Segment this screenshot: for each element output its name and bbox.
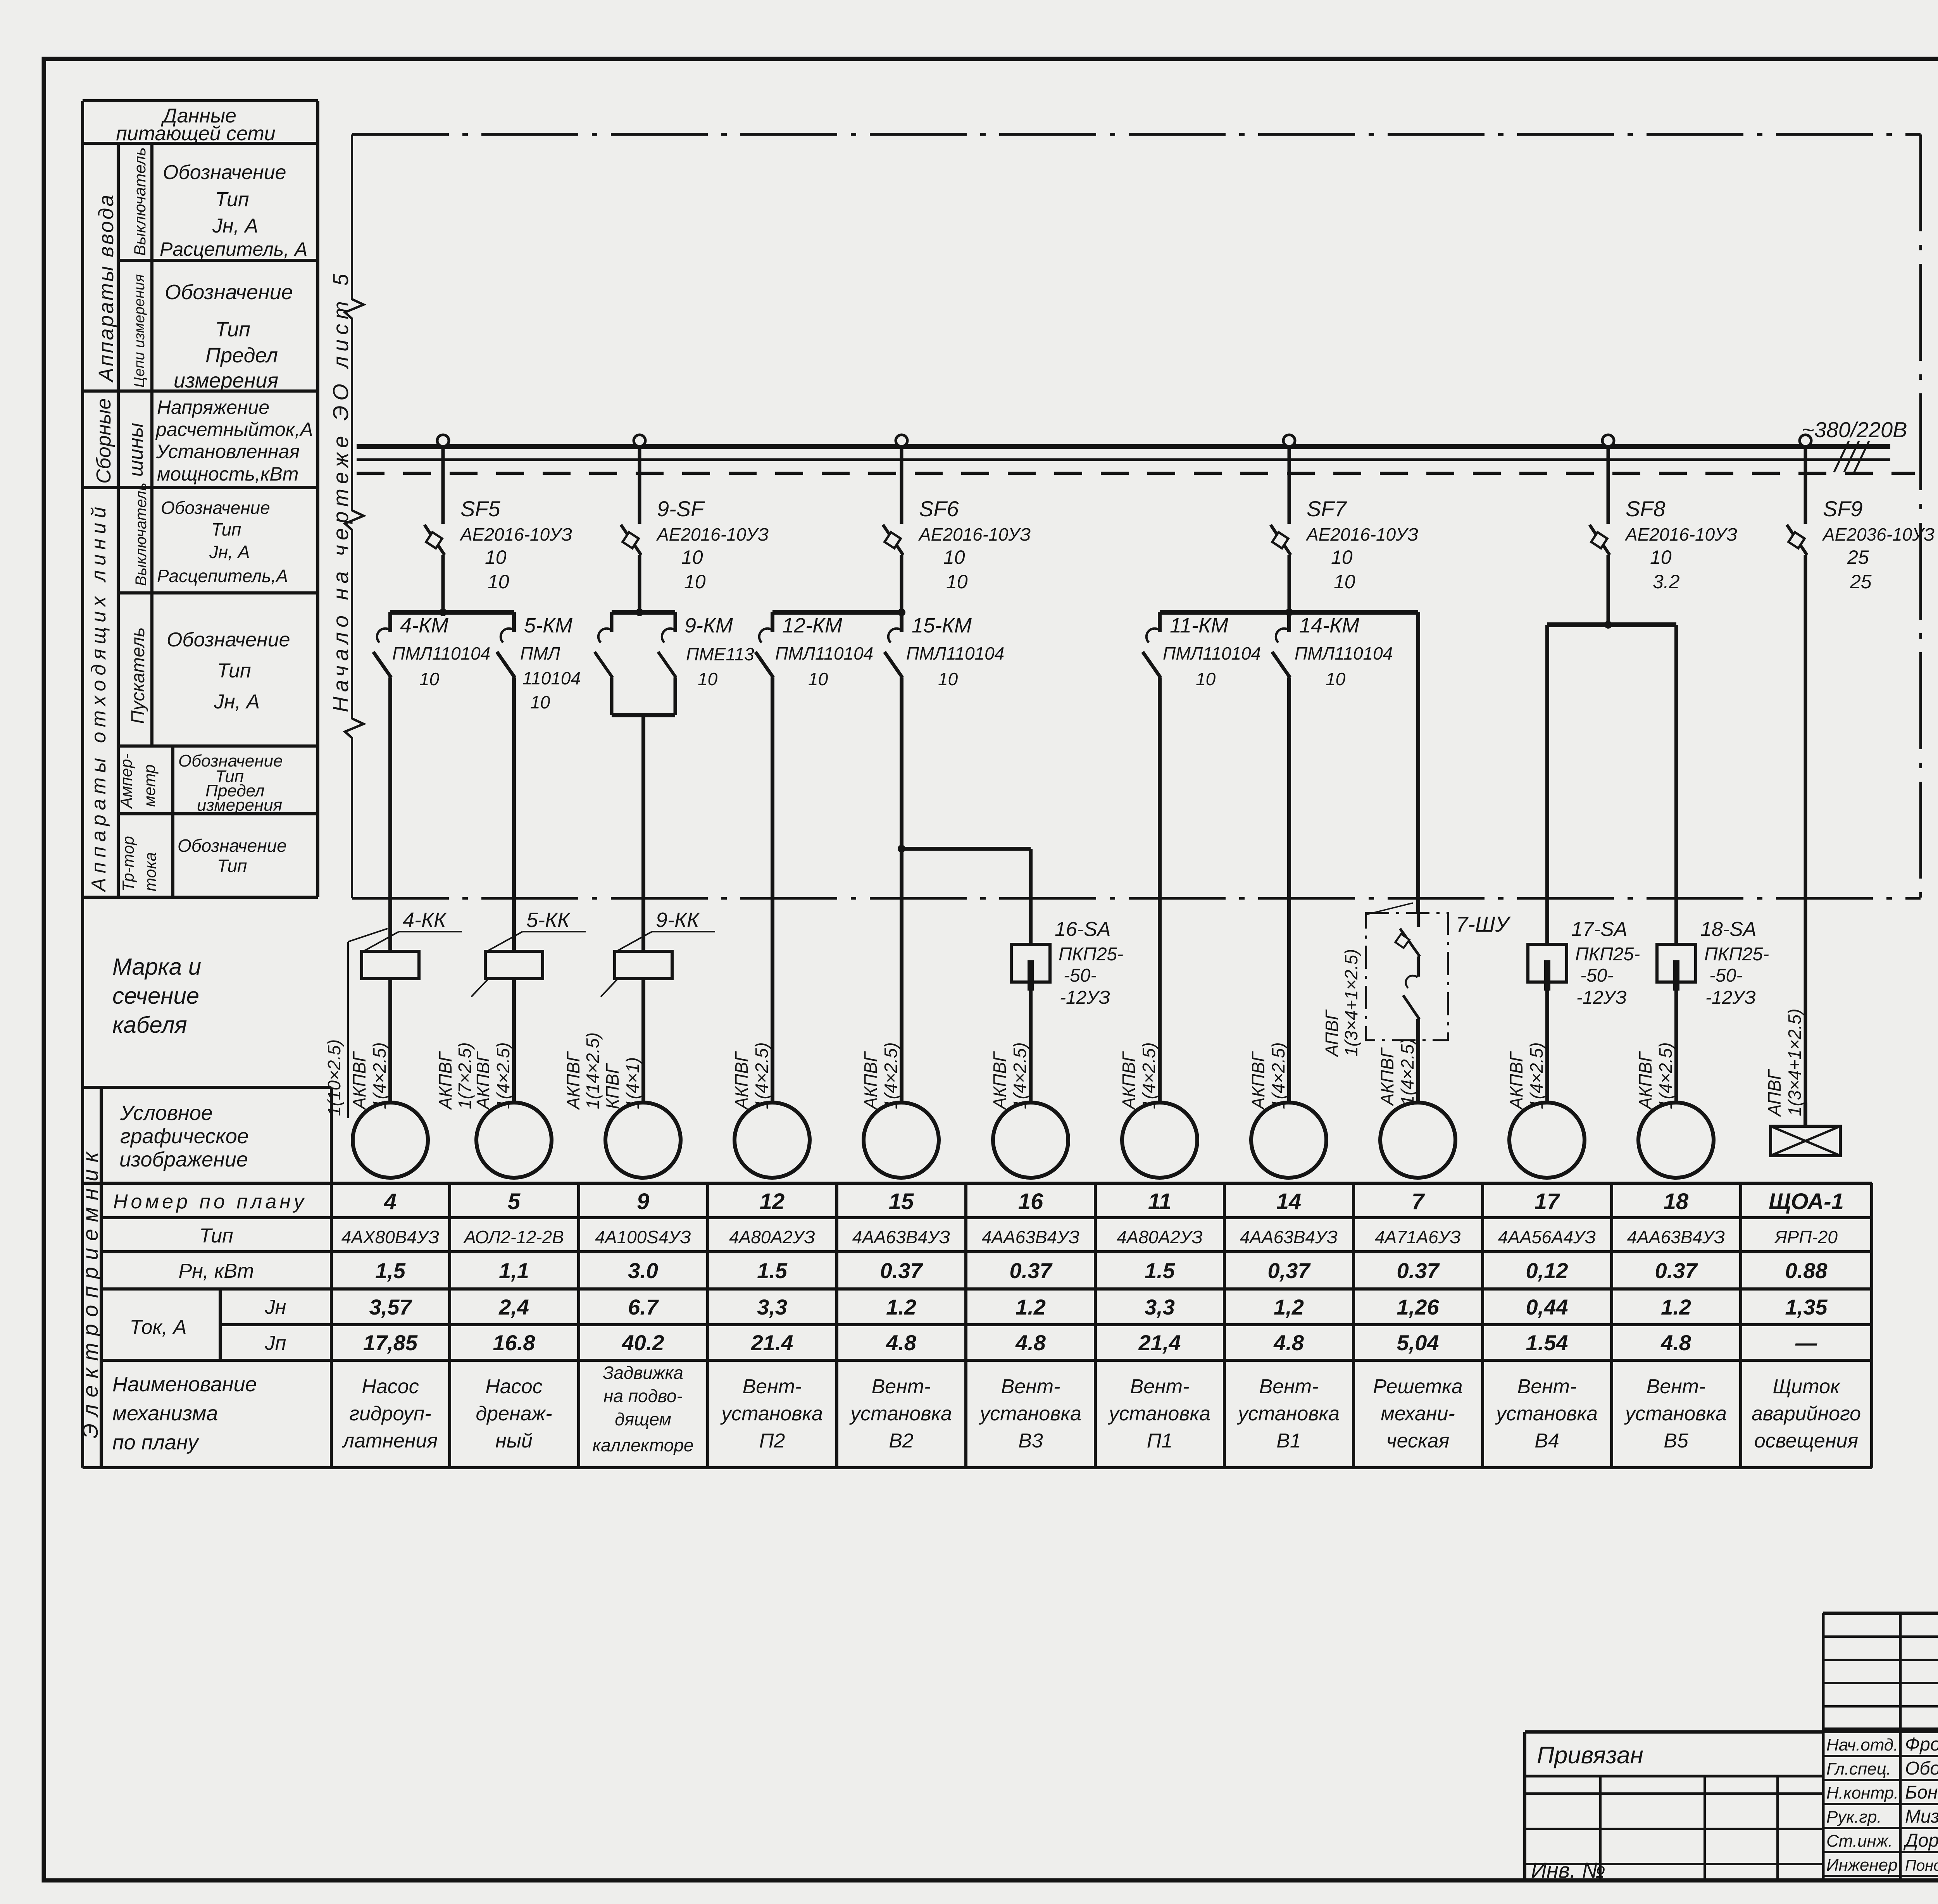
svg-text:Тип: Тип — [215, 188, 249, 211]
svg-text:10: 10 — [943, 546, 965, 568]
svg-text:4-КМ: 4-КМ — [400, 614, 448, 637]
svg-text:АПВГ: АПВГ — [1322, 1009, 1342, 1058]
svg-text:АОЛ2-12-2В: АОЛ2-12-2В — [463, 1227, 564, 1247]
svg-text:Щиток: Щиток — [1772, 1375, 1841, 1398]
svg-text:1(4×1): 1(4×1) — [622, 1057, 643, 1109]
svg-text:Ампер-: Ампер- — [117, 753, 135, 809]
svg-text:9-КМ: 9-КМ — [685, 614, 733, 637]
svg-text:Расцепитель, А: Расцепитель, А — [160, 238, 307, 260]
svg-text:3,57: 3,57 — [369, 1295, 413, 1319]
svg-text:АКПВГ: АКПВГ — [990, 1051, 1010, 1110]
svg-text:16.8: 16.8 — [493, 1330, 536, 1355]
svg-text:АКПВГ: АКПВГ — [349, 1051, 369, 1110]
svg-text:Сборные: Сборные — [93, 398, 115, 484]
svg-text:0.88: 0.88 — [1785, 1258, 1828, 1283]
svg-text:установка: установка — [1495, 1403, 1598, 1425]
svg-text:10: 10 — [1196, 669, 1216, 689]
svg-text:0,12: 0,12 — [1526, 1258, 1568, 1283]
svg-text:АПВГ: АПВГ — [1764, 1069, 1785, 1117]
svg-text:АКПВГ: АКПВГ — [731, 1051, 752, 1110]
svg-text:АКПВГ: АКПВГ — [1119, 1051, 1139, 1110]
svg-text:Мизяк: Мизяк — [1905, 1806, 1938, 1827]
svg-text:21,4: 21,4 — [1138, 1330, 1181, 1355]
svg-text:4.8: 4.8 — [1015, 1330, 1046, 1355]
svg-text:10: 10 — [530, 692, 550, 712]
svg-text:установка: установка — [1237, 1403, 1340, 1425]
svg-text:4.8: 4.8 — [1273, 1330, 1304, 1355]
svg-text:установка: установка — [1624, 1403, 1727, 1425]
svg-text:расчетныйток,А: расчетныйток,А — [155, 419, 313, 440]
svg-text:П2: П2 — [759, 1430, 785, 1452]
svg-text:ПМЛ110104: ПМЛ110104 — [775, 643, 873, 663]
svg-text:Задвижка: Задвижка — [603, 1363, 683, 1383]
svg-text:5: 5 — [508, 1189, 521, 1214]
svg-text:Jн, А: Jн, А — [214, 691, 260, 713]
svg-text:механи-: механи- — [1381, 1403, 1455, 1425]
svg-text:ПМЛ110104: ПМЛ110104 — [1163, 643, 1261, 663]
svg-text:-12УЗ: -12УЗ — [1060, 987, 1110, 1008]
svg-text:12-КМ: 12-КМ — [782, 614, 842, 637]
svg-text:АКПВГ: АКПВГ — [1377, 1047, 1397, 1106]
svg-text:Марка и: Марка и — [112, 954, 201, 980]
svg-text:ПКП25-: ПКП25- — [1575, 944, 1640, 965]
svg-text:АЕ2016-10УЗ: АЕ2016-10УЗ — [459, 524, 572, 544]
svg-text:освещения: освещения — [1754, 1430, 1858, 1452]
svg-text:40.2: 40.2 — [622, 1330, 664, 1355]
svg-text:ный: ный — [495, 1430, 533, 1452]
svg-text:15-КМ: 15-КМ — [912, 614, 972, 637]
svg-text:0,44: 0,44 — [1526, 1295, 1568, 1319]
svg-text:Обозначение: Обозначение — [163, 161, 286, 184]
svg-text:ПКП25-: ПКП25- — [1704, 944, 1769, 965]
svg-text:SF5: SF5 — [460, 496, 501, 521]
svg-text:1(3×4+1×2.5): 1(3×4+1×2.5) — [1785, 1008, 1805, 1116]
svg-text:1.2: 1.2 — [1661, 1295, 1691, 1319]
svg-text:9-SF: 9-SF — [657, 496, 705, 521]
svg-text:питающей сети: питающей сети — [116, 122, 275, 145]
svg-text:Насос: Насос — [362, 1375, 419, 1398]
svg-text:Фролов: Фролов — [1905, 1734, 1938, 1755]
svg-text:Условное: Условное — [120, 1101, 213, 1125]
svg-text:изображение: изображение — [119, 1148, 248, 1171]
svg-text:Цепи измерения: Цепи измерения — [131, 274, 148, 388]
svg-text:Вент-: Вент- — [1259, 1375, 1319, 1398]
svg-text:АКПВГ: АКПВГ — [473, 1051, 493, 1110]
svg-text:Расцепитель,А: Расцепитель,А — [157, 566, 288, 586]
svg-text:кабеля: кабеля — [112, 1012, 187, 1038]
svg-text:В2: В2 — [889, 1430, 914, 1452]
svg-text:гидроуп-: гидроуп- — [349, 1403, 431, 1425]
svg-text:Тип: Тип — [199, 1225, 233, 1247]
svg-text:10: 10 — [684, 571, 706, 593]
svg-text:1(4×2.5): 1(4×2.5) — [1526, 1042, 1547, 1109]
svg-text:ПМЛ: ПМЛ — [520, 643, 560, 663]
svg-text:1(4×2.5): 1(4×2.5) — [1010, 1042, 1030, 1109]
svg-text:АКПВГ: АКПВГ — [563, 1051, 583, 1110]
svg-text:Обозначение: Обозначение — [167, 629, 290, 651]
svg-text:2,4: 2,4 — [498, 1295, 529, 1319]
svg-text:1.54: 1.54 — [1526, 1330, 1568, 1355]
svg-text:Вент-: Вент- — [743, 1375, 802, 1398]
svg-text:АКПВГ: АКПВГ — [1248, 1051, 1268, 1110]
svg-text:0,37: 0,37 — [1268, 1258, 1311, 1283]
svg-text:1,35: 1,35 — [1785, 1295, 1828, 1319]
svg-text:Н.контр.: Н.контр. — [1826, 1783, 1898, 1802]
svg-text:10: 10 — [485, 546, 507, 568]
svg-text:15: 15 — [889, 1189, 914, 1214]
svg-text:АЕ2016-10УЗ: АЕ2016-10УЗ — [1305, 524, 1418, 544]
svg-text:сечение: сечение — [112, 983, 199, 1009]
svg-text:Тип: Тип — [215, 318, 250, 341]
svg-text:ЯРП-20: ЯРП-20 — [1774, 1227, 1838, 1247]
svg-text:4АХ80В4УЗ: 4АХ80В4УЗ — [341, 1227, 440, 1247]
svg-text:1.5: 1.5 — [757, 1258, 788, 1283]
svg-text:Jн, А: Jн, А — [212, 215, 258, 237]
svg-text:Напряжение: Напряжение — [157, 396, 269, 418]
svg-text:9: 9 — [637, 1189, 649, 1214]
svg-text:10: 10 — [946, 571, 968, 593]
svg-text:АЕ2016-10УЗ: АЕ2016-10УЗ — [656, 524, 769, 544]
svg-text:4АА63В4УЗ: 4АА63В4УЗ — [1240, 1227, 1338, 1247]
svg-text:10: 10 — [1334, 571, 1355, 593]
svg-text:4А80А2УЗ: 4А80А2УЗ — [1117, 1227, 1203, 1247]
svg-text:10: 10 — [1326, 669, 1346, 689]
svg-text:ПМЕ113: ПМЕ113 — [686, 644, 754, 664]
svg-text:ПКП25-: ПКП25- — [1059, 944, 1123, 965]
svg-text:Вент-: Вент- — [872, 1375, 931, 1398]
svg-text:18-SA: 18-SA — [1700, 918, 1757, 941]
svg-text:11: 11 — [1148, 1189, 1171, 1214]
svg-text:1(4×2.5): 1(4×2.5) — [369, 1042, 390, 1109]
svg-text:25: 25 — [1847, 546, 1869, 568]
svg-text:1(4×2.5): 1(4×2.5) — [1268, 1042, 1288, 1109]
svg-text:В3: В3 — [1018, 1430, 1043, 1452]
svg-text:1(4×2.5): 1(4×2.5) — [752, 1042, 772, 1109]
svg-text:Вент-: Вент- — [1001, 1375, 1060, 1398]
svg-text:аварийного: аварийного — [1752, 1403, 1861, 1425]
svg-text:1(4×2.5): 1(4×2.5) — [1139, 1042, 1159, 1109]
svg-text:Вент-: Вент- — [1130, 1375, 1190, 1398]
svg-text:Вент-: Вент- — [1517, 1375, 1577, 1398]
svg-text:ЩОА-1: ЩОА-1 — [1769, 1189, 1844, 1214]
svg-text:7: 7 — [1412, 1189, 1425, 1214]
svg-text:установка: установка — [1108, 1403, 1210, 1425]
svg-text:АКПВГ: АКПВГ — [435, 1051, 455, 1110]
svg-text:4: 4 — [384, 1189, 397, 1214]
svg-text:ПМЛ110104: ПМЛ110104 — [392, 643, 490, 663]
svg-text:Jн, А: Jн, А — [209, 542, 250, 562]
svg-text:110104: 110104 — [522, 668, 581, 688]
svg-text:Инженер: Инженер — [1826, 1856, 1898, 1875]
svg-text:дящем: дящем — [615, 1409, 671, 1429]
svg-text:1(4×2.5): 1(4×2.5) — [1655, 1042, 1676, 1109]
svg-text:-12УЗ: -12УЗ — [1705, 987, 1756, 1008]
svg-text:0.37: 0.37 — [1010, 1258, 1053, 1283]
svg-text:~380/220В: ~380/220В — [1802, 417, 1907, 442]
svg-text:10: 10 — [419, 669, 440, 689]
svg-text:АЕ2016-10УЗ: АЕ2016-10УЗ — [1624, 524, 1737, 544]
svg-text:1(14×2.5): 1(14×2.5) — [583, 1032, 603, 1109]
svg-text:каллекторе: каллекторе — [592, 1435, 693, 1455]
svg-text:10: 10 — [698, 669, 718, 689]
svg-text:16: 16 — [1018, 1189, 1043, 1214]
svg-text:16-SA: 16-SA — [1055, 918, 1111, 941]
svg-text:Наименование: Наименование — [112, 1373, 257, 1396]
svg-text:1.2: 1.2 — [1016, 1295, 1046, 1319]
svg-text:17: 17 — [1535, 1189, 1560, 1214]
svg-text:0.37: 0.37 — [1397, 1258, 1440, 1283]
svg-text:1.2: 1.2 — [886, 1295, 916, 1319]
svg-text:Аппараты отходящих линий: Аппараты отходящих линий — [88, 502, 110, 893]
svg-text:1(10×2.5): 1(10×2.5) — [324, 1039, 344, 1116]
svg-text:1,5: 1,5 — [375, 1258, 406, 1283]
svg-text:установка: установка — [979, 1403, 1081, 1425]
svg-text:5,04: 5,04 — [1397, 1330, 1439, 1355]
svg-text:10: 10 — [1331, 546, 1353, 568]
svg-text:Начало на чертеже ЭО лист: Начало на чертеже ЭО лист 5 — [328, 269, 353, 713]
svg-text:18: 18 — [1664, 1189, 1689, 1214]
svg-text:4АА63В4УЗ: 4АА63В4УЗ — [982, 1227, 1080, 1247]
svg-text:Обозная: Обозная — [1905, 1758, 1938, 1779]
svg-text:4.8: 4.8 — [1660, 1330, 1691, 1355]
svg-text:14: 14 — [1276, 1189, 1302, 1214]
svg-text:0.37: 0.37 — [1655, 1258, 1698, 1283]
svg-text:Обозначение: Обозначение — [161, 498, 270, 518]
svg-text:5-КМ: 5-КМ — [524, 614, 572, 637]
svg-text:3.2: 3.2 — [1653, 571, 1680, 593]
svg-text:измерения: измерения — [197, 796, 282, 815]
svg-text:тока: тока — [141, 852, 159, 891]
svg-text:ПМЛ110104: ПМЛ110104 — [906, 643, 1004, 663]
svg-text:Вент-: Вент- — [1647, 1375, 1706, 1398]
svg-text:Тр-тор: Тр-тор — [119, 836, 137, 891]
svg-text:В4: В4 — [1535, 1430, 1559, 1452]
svg-text:Гл.спец.: Гл.спец. — [1826, 1759, 1891, 1778]
svg-text:Привязан: Привязан — [1537, 1742, 1643, 1769]
svg-text:Насос: Насос — [485, 1375, 542, 1398]
svg-text:-50-: -50- — [1580, 965, 1613, 986]
svg-text:3.0: 3.0 — [628, 1258, 658, 1283]
svg-text:АЕ2016-10УЗ: АЕ2016-10УЗ — [918, 524, 1031, 544]
svg-text:25: 25 — [1850, 571, 1872, 593]
svg-text:10: 10 — [681, 546, 703, 568]
svg-text:4А71А6УЗ: 4А71А6УЗ — [1375, 1227, 1461, 1247]
svg-text:П1: П1 — [1147, 1430, 1173, 1452]
svg-text:установка: установка — [720, 1403, 823, 1425]
svg-text:Обозначение: Обозначение — [178, 836, 287, 856]
svg-text:10: 10 — [1650, 546, 1672, 568]
svg-text:10: 10 — [808, 669, 828, 689]
svg-text:В1: В1 — [1276, 1430, 1301, 1452]
svg-text:мощность,кВт: мощность,кВт — [157, 463, 298, 485]
svg-text:7-ШУ: 7-ШУ — [1456, 912, 1511, 936]
svg-text:АЕ2036-10УЗ: АЕ2036-10УЗ — [1822, 524, 1935, 544]
svg-text:Номер по плану: Номер по плану — [113, 1191, 307, 1213]
svg-text:Пускатель: Пускатель — [128, 627, 148, 724]
svg-text:Тип: Тип — [217, 856, 247, 876]
svg-text:1(4×2.5): 1(4×2.5) — [1397, 1038, 1417, 1105]
svg-text:Рн, кВт: Рн, кВт — [179, 1260, 254, 1282]
svg-text:шины: шины — [125, 423, 147, 477]
svg-text:Электроприемник: Электроприемник — [78, 1145, 102, 1439]
svg-text:1(4×2.5): 1(4×2.5) — [881, 1042, 901, 1109]
svg-text:установка: установка — [849, 1403, 952, 1425]
svg-text:Рук.гр.: Рук.гр. — [1826, 1808, 1882, 1826]
svg-text:3,3: 3,3 — [1145, 1295, 1175, 1319]
svg-text:4-КК: 4-КК — [403, 908, 447, 932]
svg-text:-12УЗ: -12УЗ — [1576, 987, 1627, 1008]
svg-text:12: 12 — [760, 1189, 785, 1214]
svg-text:9-КК: 9-КК — [656, 908, 700, 932]
svg-text:14-КМ: 14-КМ — [1299, 614, 1359, 637]
svg-text:—: — — [1795, 1330, 1817, 1355]
svg-text:1(4×2.5): 1(4×2.5) — [493, 1042, 513, 1109]
svg-text:Обозначение: Обозначение — [165, 281, 293, 304]
svg-text:Предел: Предел — [205, 344, 278, 367]
svg-text:Тип: Тип — [217, 660, 251, 682]
svg-text:17,85: 17,85 — [363, 1330, 418, 1355]
svg-text:Установленная: Установленная — [156, 441, 300, 462]
svg-text:4А100S4УЗ: 4А100S4УЗ — [595, 1227, 691, 1247]
svg-text:1(7×2.5): 1(7×2.5) — [455, 1042, 475, 1109]
svg-text:Jн: Jн — [265, 1296, 286, 1318]
svg-text:латнения: латнения — [342, 1430, 438, 1452]
svg-text:Выключатель: Выключатель — [131, 147, 149, 256]
svg-text:ПМЛ110104: ПМЛ110104 — [1295, 643, 1393, 663]
svg-text:Пономарева: Пономарева — [1905, 1857, 1938, 1874]
svg-text:АКПВГ: АКПВГ — [1635, 1051, 1655, 1110]
svg-text:1,1: 1,1 — [499, 1258, 529, 1283]
svg-text:измерения: измерения — [174, 369, 278, 392]
svg-text:АКПВГ: АКПВГ — [860, 1051, 881, 1110]
svg-text:Инв. №: Инв. № — [1531, 1858, 1605, 1882]
svg-text:0.37: 0.37 — [880, 1258, 924, 1283]
svg-text:-50-: -50- — [1064, 965, 1097, 986]
svg-text:SF9: SF9 — [1823, 496, 1863, 521]
svg-text:4АА56А4УЗ: 4АА56А4УЗ — [1498, 1227, 1596, 1247]
svg-text:В5: В5 — [1664, 1430, 1689, 1452]
svg-text:КПВГ: КПВГ — [602, 1063, 622, 1109]
svg-text:Бондарь: Бондарь — [1905, 1782, 1938, 1803]
svg-text:21.4: 21.4 — [751, 1330, 793, 1355]
svg-text:Нач.отд.: Нач.отд. — [1826, 1735, 1898, 1754]
svg-text:4.8: 4.8 — [886, 1330, 917, 1355]
svg-text:-50-: -50- — [1709, 965, 1742, 986]
svg-text:17-SA: 17-SA — [1571, 918, 1628, 941]
svg-text:Аппараты ввода: Аппараты ввода — [95, 193, 118, 383]
svg-text:10: 10 — [938, 669, 958, 689]
svg-text:метр: метр — [140, 764, 159, 807]
svg-text:Решетка: Решетка — [1373, 1375, 1462, 1398]
svg-text:SF6: SF6 — [919, 496, 959, 521]
svg-text:10: 10 — [488, 571, 509, 593]
svg-text:3,3: 3,3 — [757, 1295, 787, 1319]
svg-text:4А80А2УЗ: 4А80А2УЗ — [729, 1227, 815, 1247]
svg-text:5-КК: 5-КК — [526, 908, 571, 932]
svg-text:SF8: SF8 — [1626, 496, 1666, 521]
svg-text:Jп: Jп — [265, 1332, 286, 1354]
svg-text:1,26: 1,26 — [1397, 1295, 1440, 1319]
svg-text:механизма: механизма — [112, 1402, 218, 1425]
svg-text:Ст.инж.: Ст.инж. — [1826, 1832, 1893, 1851]
svg-text:Дорофеев: Дорофеев — [1903, 1830, 1938, 1851]
svg-text:на подво-: на подво- — [603, 1386, 683, 1406]
svg-text:SF7: SF7 — [1307, 496, 1347, 521]
svg-text:графическое: графическое — [120, 1125, 249, 1148]
svg-text:11-КМ: 11-КМ — [1170, 614, 1228, 637]
svg-text:Тип: Тип — [211, 519, 241, 539]
svg-text:1.5: 1.5 — [1145, 1258, 1175, 1283]
svg-text:1(3×4+1×2.5): 1(3×4+1×2.5) — [1341, 949, 1361, 1056]
svg-text:по плану: по плану — [112, 1431, 200, 1454]
svg-text:6.7: 6.7 — [628, 1295, 659, 1319]
svg-text:Ток, А: Ток, А — [129, 1316, 186, 1339]
svg-text:дренаж-: дренаж- — [476, 1403, 552, 1425]
svg-text:АКПВГ: АКПВГ — [1506, 1051, 1526, 1110]
svg-text:1,2: 1,2 — [1274, 1295, 1304, 1319]
svg-text:4АА63В4УЗ: 4АА63В4УЗ — [1627, 1227, 1725, 1247]
svg-text:4АА63В4УЗ: 4АА63В4УЗ — [852, 1227, 950, 1247]
svg-text:ческая: ческая — [1386, 1430, 1450, 1452]
svg-text:Выключатель: Выключатель — [133, 482, 150, 586]
